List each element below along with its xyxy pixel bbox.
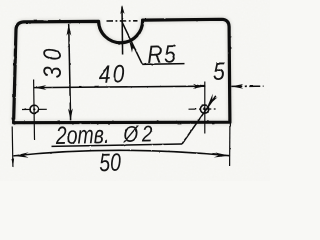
R5 leader arrowhead (tip on arc, pointing to centre) (129, 41, 137, 53)
svg-text:30: 30 (38, 43, 66, 79)
svg-text:5: 5 (213, 57, 225, 85)
svg-text:50: 50 (99, 148, 122, 177)
leader line for 2 holes note (182, 96, 216, 144)
plate outline (50x30 plate with R5 notch) (14, 19, 230, 122)
arrow 30 top (67, 24, 72, 36)
soft halo of plate outline (14, 19, 230, 122)
arrow 40 right (shared with 5 dim) (193, 84, 206, 89)
leader arrowhead at hole H2 (208, 94, 218, 106)
extension line right (plate edge extended down) (229, 124, 231, 167)
hole H1 horizontal centerline (22, 108, 49, 110)
dimension 5: outside line right of plate edge (231, 85, 263, 87)
wire: notch horizontal centerline (dash-dot) (107, 20, 138, 22)
svg-text:Ø2: Ø2 (122, 122, 156, 147)
svg-text:R5: R5 (147, 40, 178, 69)
hole H2 circle (200, 105, 208, 113)
extension line left (from plate corner down) (11, 127, 14, 167)
arrow 5 (points left at plate edge) (231, 84, 243, 89)
R5 radial leader line (122, 22, 143, 65)
arrow 30 bottom (68, 108, 73, 120)
dimension line 40 (between hole centres) (34, 86, 206, 87)
wire: notch vertical centerline (121, 7, 124, 55)
dimension line 50 (bowed) (13, 150, 229, 156)
hole H1 circle (30, 105, 38, 113)
dimension line 30 (vertical) (69, 24, 71, 121)
arrow 40 left (34, 85, 47, 90)
arrow 50 right (214, 152, 230, 157)
label underline / leader shelf (52, 144, 183, 146)
ink blob on left extension line (11, 159, 14, 168)
hole H1 (left, d2) vertical centerline (33, 80, 36, 140)
svg-text:40: 40 (98, 59, 127, 88)
hole H2 horizontal centerline (189, 108, 217, 110)
arrow 50 left (13, 152, 29, 157)
notch centerline top tick (120, 5, 124, 14)
hole H2 (right, d2) vertical centerline (204, 82, 206, 134)
R5 label shelf (142, 63, 184, 66)
